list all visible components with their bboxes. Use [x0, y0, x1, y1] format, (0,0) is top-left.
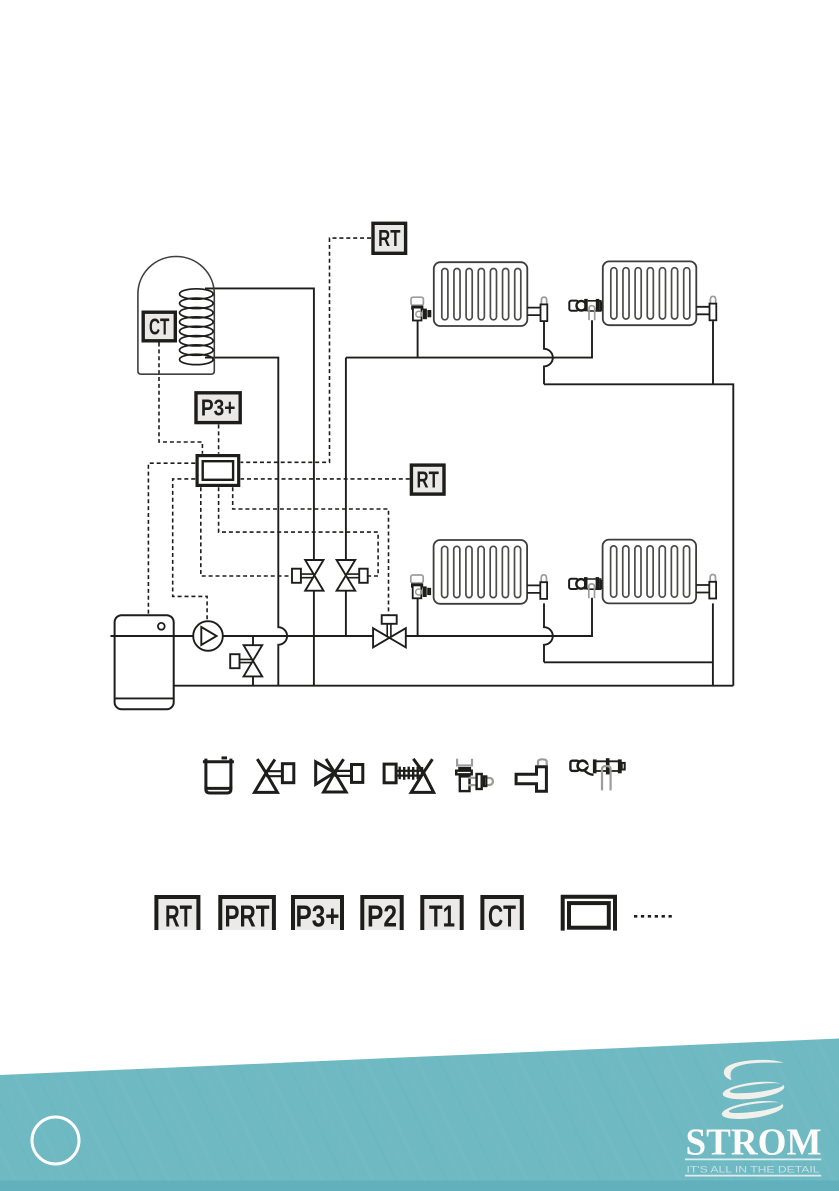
wire: RT upstairs thermostat cable [241, 238, 371, 462]
wire: pump control cable [173, 479, 207, 621]
zone valve Z2 [337, 560, 368, 591]
radiator R4 with TRV and lockshield [569, 540, 716, 604]
legend label CT cylinder thermostat [482, 897, 521, 934]
label box RT downstairs room thermostat [411, 465, 444, 494]
radiator R1 with TRV and lockshield [411, 262, 547, 326]
svg-text:RT: RT [165, 901, 192, 934]
wire: upstairs flow main with TRV-2 riser [346, 320, 592, 357]
wire: boiler control cable [148, 463, 195, 615]
svg-text:P3+: P3+ [201, 395, 236, 421]
label box CT cylinder thermostat [143, 312, 175, 341]
legend 3-port motorised valve symbol [316, 759, 363, 792]
STROM tagline rule upper [685, 1158, 821, 1160]
legend automatic bypass valve symbol [384, 759, 434, 793]
wire: radiator R3 lockshield drop with hop [544, 603, 553, 662]
automatic bypass valve [230, 645, 262, 676]
wire: upstairs return main down right side [544, 384, 733, 685]
legend 2-port motorised valve symbol [255, 759, 294, 792]
radiator R2 with TRV and lockshield [569, 261, 716, 325]
label box P3+ programmer [196, 393, 240, 423]
motorised valve V3 on pump line [373, 615, 406, 647]
hot water cylinder [138, 257, 214, 375]
pump P1 [193, 621, 223, 651]
svg-text:T1: T1 [429, 901, 455, 934]
legend thermostatic radiator valve straight symbol [570, 758, 624, 790]
legend dashed wiring sample [634, 915, 673, 918]
svg-text:RT: RT [378, 225, 401, 251]
svg-text:P2: P2 [367, 901, 397, 934]
wire: zone valve Z1 cable [201, 487, 292, 576]
programmer control unit [197, 456, 239, 486]
wire: pump line right section with TRV-4 riser [406, 598, 592, 636]
boiler [111, 615, 194, 709]
wire: motorised valve V3 cable [233, 487, 389, 615]
wire: bypass valve stubs [252, 636, 254, 686]
svg-text:RT: RT [417, 467, 440, 493]
radiator R3 with TRV and lockshield [411, 540, 547, 604]
svg-text:IT'S ALL IN THE DETAIL: IT'S ALL IN THE DETAIL [687, 1165, 820, 1176]
label box RT upstairs room thermostat [373, 223, 406, 253]
coil heat exchanger inside cylinder [180, 289, 214, 365]
page number circle [32, 1117, 79, 1164]
svg-text:CT: CT [488, 901, 516, 934]
wire: P3+ cable to programmer [218, 425, 220, 454]
wire: coil return pipe with hop over pump line [205, 358, 287, 686]
wire: RT downstairs thermostat cable [241, 478, 410, 480]
wire: CT sensor cable to programmer [159, 343, 202, 454]
wire: zone-1 riser lower to return [313, 591, 315, 686]
wire: boiler return main [174, 685, 734, 687]
zone valve Z1 [292, 560, 324, 591]
svg-text:P3+: P3+ [296, 901, 340, 934]
wire: radiator R3 TRV drop [417, 598, 419, 636]
legend lockshield valve symbol [516, 759, 547, 791]
legend thermostatic radiator valve angled symbol [456, 759, 493, 791]
STROM logo swirl [721, 1056, 786, 1122]
legend label RT room thermostat [156, 897, 198, 934]
footer teal banner [0, 1039, 839, 1191]
svg-text:CT: CT [149, 313, 170, 339]
wire: radiator R1 lockshield drop with hop [544, 321, 553, 384]
svg-text:STROM: STROM [686, 1122, 822, 1164]
wire: pump line left section [111, 635, 374, 637]
legend boiler symbol [203, 758, 234, 793]
wire: radiator R2 lockshield drop [712, 321, 714, 384]
STROM tagline rule lower [685, 1175, 821, 1177]
wire: zone valve Z2 cable [219, 487, 379, 576]
legend label P2 programmer [362, 897, 401, 934]
legend label T1 timer [422, 897, 461, 934]
wire: downstairs return branch [544, 661, 713, 663]
wire: coil flow pipe and zone-1 riser upper [205, 288, 314, 560]
legend label PRT programmable room thermostat [220, 897, 274, 934]
wire: radiator R1 TRV drop [417, 321, 419, 358]
wire: radiator R4 lockshield drop [712, 603, 714, 685]
legend programmer icon [563, 897, 615, 931]
svg-text:PRT: PRT [225, 901, 270, 934]
wire: zone-2 riser upper [345, 358, 347, 560]
legend label P3+ programmer [293, 897, 342, 934]
wire: zone-2 riser lower [345, 591, 347, 636]
